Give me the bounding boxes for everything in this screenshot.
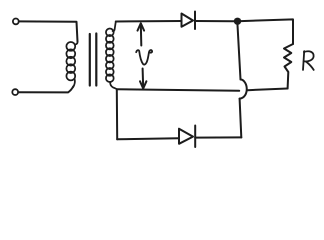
- resistor R zigzag: [284, 44, 293, 89]
- diode D1 cathode bar: [194, 12, 196, 30]
- label R: [303, 51, 314, 70]
- label v: [136, 50, 152, 65]
- wire bottom rail to diode D2: [117, 138, 179, 139]
- diode D2 triangle: [179, 129, 193, 144]
- wire D1 to node: [195, 20, 234, 22]
- wire secondary top to diode D1: [116, 20, 182, 23]
- wire bottom-left to primary bottom: [18, 87, 73, 93]
- voltage arrow shaft upper with arrowhead: [138, 23, 145, 45]
- wire top-left to primary top: [19, 21, 78, 41]
- wire hop to bottom rail corner: [240, 99, 242, 138]
- voltage arrow shaft lower with arrowhead: [140, 69, 146, 89]
- diode D1 triangle: [182, 14, 194, 27]
- node junction dot: [234, 18, 241, 25]
- wire hop crossover arc: [240, 79, 247, 98]
- wire D2 to bottom rail corner: [195, 136, 241, 138]
- transformer core: [90, 34, 97, 86]
- wire resistor bottom to hop: [247, 89, 287, 91]
- input terminal top: [13, 19, 19, 25]
- wire node to resistor top: [241, 19, 293, 44]
- input terminal bottom: [12, 89, 18, 95]
- wire secondary bottom down left side: [116, 89, 118, 139]
- wire node down to hop: [238, 25, 241, 79]
- wire secondary bottom to hop: [117, 89, 239, 91]
- transformer secondary winding: [106, 22, 117, 90]
- diode D2 cathode bar: [194, 126, 196, 148]
- transformer primary winding: [66, 42, 77, 88]
